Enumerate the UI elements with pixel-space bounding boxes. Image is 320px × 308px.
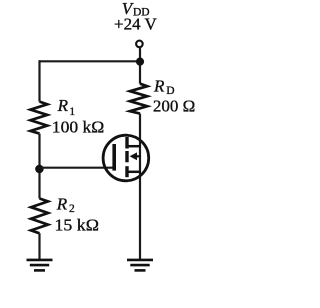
- label R1: [57, 96, 76, 118]
- transistor gate electrode bar: [112, 144, 116, 171]
- wire gate horizontal: [40, 167, 116, 169]
- VDD supply terminal: [136, 41, 143, 48]
- resistor RD: [130, 84, 147, 114]
- label R2: [56, 194, 75, 215]
- wire right rail upper: [139, 47, 141, 84]
- svg-text:+24 V: +24 V: [114, 14, 158, 33]
- substrate stub with arrow: [130, 152, 141, 160]
- resistor R1: [31, 102, 48, 134]
- svg-text:2: 2: [69, 203, 75, 215]
- label RD: [153, 77, 175, 97]
- svg-text:100 kΩ: 100 kΩ: [52, 118, 105, 137]
- ground left: [27, 260, 53, 271]
- wire left rail middle: [38, 134, 40, 199]
- svg-text:200 Ω: 200 Ω: [153, 96, 195, 115]
- node gate junction dot: [35, 165, 44, 174]
- svg-text:R: R: [57, 96, 69, 115]
- ground right: [127, 260, 153, 271]
- svg-text:D: D: [166, 85, 174, 97]
- wire left rail lower: [38, 233, 40, 259]
- wire right rail lower (drain lead through to source lead and ground): [139, 114, 141, 260]
- label VDD: [122, 0, 150, 19]
- wire top horizontal: [40, 60, 141, 62]
- wire left rail upper: [38, 60, 40, 101]
- transistor MOSFET body circle: [103, 135, 149, 181]
- node VDD junction dot: [136, 58, 144, 66]
- transistor channel segment top: [125, 137, 128, 149]
- drain stub: [127, 145, 141, 148]
- transistor channel segment bottom: [125, 166, 128, 177]
- transistor channel segment middle: [125, 151, 128, 162]
- svg-text:1: 1: [69, 106, 75, 118]
- source stub: [127, 171, 141, 174]
- svg-text:R: R: [153, 77, 165, 96]
- resistor R2: [31, 199, 48, 234]
- svg-text:R: R: [56, 194, 68, 213]
- svg-text:15 kΩ: 15 kΩ: [55, 215, 100, 234]
